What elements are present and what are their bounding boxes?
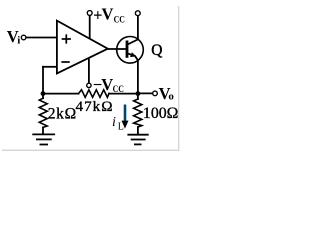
- svg-text:Q: Q: [151, 42, 162, 59]
- svg-text:V: V: [101, 75, 113, 94]
- svg-text:CC: CC: [114, 15, 125, 25]
- svg-text:o: o: [168, 91, 174, 103]
- svg-text:i: i: [112, 115, 116, 130]
- svg-text:100Ω: 100Ω: [143, 105, 179, 122]
- svg-text:2kΩ: 2kΩ: [48, 106, 76, 123]
- svg-text:L: L: [118, 122, 124, 133]
- svg-text:i: i: [17, 35, 20, 47]
- svg-text:CC: CC: [113, 85, 124, 95]
- svg-text:47kΩ: 47kΩ: [76, 98, 113, 115]
- svg-text:V: V: [102, 5, 114, 24]
